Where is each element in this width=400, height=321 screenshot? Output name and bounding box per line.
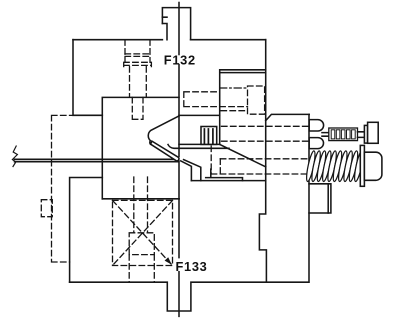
upper screw: knurled nut bullets — [309, 120, 323, 131]
small dashed square left — [41, 200, 52, 217]
linkage below lip — [181, 161, 192, 181]
nut block top with chamfer — [266, 114, 310, 120]
hidden screw shank through cap and nut (dashed) — [222, 126, 310, 141]
clamp arm lower lip (white filled band) — [151, 141, 179, 161]
top surface line — [73, 39, 266, 41]
upper-left body outline — [73, 40, 102, 116]
washer at spring end — [360, 145, 364, 186]
hidden hole through channel (dashed) — [184, 86, 265, 114]
upper screw shaft — [322, 133, 329, 137]
hidden pin under block (dashed slot + step) — [129, 177, 154, 282]
shaft to small knob — [358, 132, 365, 138]
hidden bolt pocket in cap block — [248, 86, 265, 114]
lower-left body — [70, 178, 103, 283]
X-box (dashed cross square F133) — [113, 200, 173, 265]
bottom outline with bottom boss — [70, 282, 309, 311]
dash-dot centerline of pocket — [220, 87, 248, 89]
centerline top boss — [178, 3, 180, 55]
support line and main diagonal of clamp arm — [179, 144, 266, 167]
block bottom — [102, 198, 179, 200]
hidden rod inside spring housing (dashed) — [211, 146, 307, 174]
cap block (double top line) — [220, 70, 266, 145]
right vertical with zigzag — [259, 40, 266, 283]
break symbol at plate left end — [12, 146, 17, 167]
box below spring — [309, 184, 331, 213]
svg-text:F132: F132 — [164, 52, 196, 67]
arrowhead on X diagonal — [165, 257, 172, 265]
top boss — [162, 8, 190, 40]
lower ledge — [191, 180, 265, 182]
rail on ledge — [206, 169, 243, 180]
seat ledge with curved lead-in — [168, 145, 229, 149]
small knob plate — [364, 125, 367, 143]
clamp arm beak outline — [148, 116, 179, 144]
nut/body right edge — [308, 114, 310, 282]
pin block with serrations (hatch) — [201, 127, 217, 145]
small knob head — [368, 122, 379, 143]
central block — [102, 97, 179, 198]
svg-text:F133: F133 — [176, 259, 208, 274]
knob handle (rounded right) — [364, 152, 382, 180]
hidden outline left side (dashed) — [41, 115, 73, 262]
knurled band — [329, 128, 358, 141]
centerline / block right edge — [178, 65, 180, 199]
channel top line — [179, 114, 220, 116]
workpiece plate (thin sheet) — [15, 159, 179, 161]
spring coils — [305, 150, 365, 182]
hidden bolt F132 (dashed, upper-left body) — [124, 40, 152, 120]
